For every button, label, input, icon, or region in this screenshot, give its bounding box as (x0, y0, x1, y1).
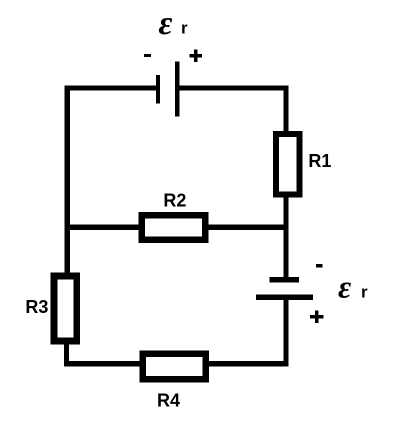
battery B1 plus sign (189, 50, 201, 62)
battery B2 negative plate (short) (269, 277, 299, 283)
svg-text:R2: R2 (163, 191, 186, 211)
wire right vertical upper (284, 85, 289, 135)
resistor R1 (276, 134, 299, 194)
battery B1 minus sign (144, 54, 151, 57)
wire top-left segment (65, 85, 158, 90)
wire R2 row (66, 225, 287, 231)
wire right vertical lower (284, 299, 289, 367)
wire bottom (64, 361, 289, 366)
battery B2 minus sign (316, 264, 323, 267)
battery B1 negative plate (short) (156, 75, 160, 104)
svg-text:R1: R1 (308, 151, 331, 171)
svg-text:R4: R4 (157, 391, 180, 411)
resistor R3 (54, 276, 77, 341)
svg-text:r: r (181, 19, 188, 38)
svg-text:r: r (361, 283, 368, 302)
svg-text:ε: ε (159, 5, 173, 42)
wire left lower (64, 342, 69, 367)
svg-text:ε: ε (338, 268, 351, 304)
wire left vertical (65, 85, 70, 276)
battery B1 positive plate (long) (175, 62, 179, 117)
battery B2 plus sign (310, 310, 323, 323)
wire right vertical middle (284, 196, 289, 278)
wire top-right segment (177, 85, 289, 90)
svg-text:R3: R3 (25, 297, 48, 317)
resistor R4 (143, 354, 206, 379)
resistor R2 (142, 215, 206, 240)
battery B2 positive plate (long) (256, 295, 313, 301)
